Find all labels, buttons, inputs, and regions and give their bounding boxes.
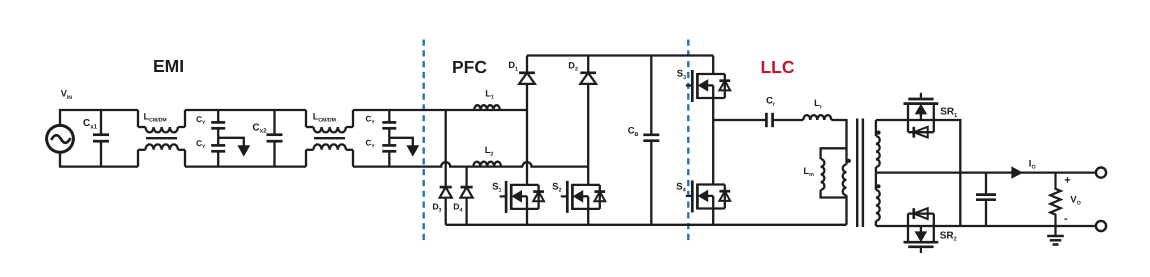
svg-text:LCM/DM: LCM/DM [313,112,336,124]
svg-text:Lm: Lm [803,165,814,178]
svg-text:LLC: LLC [760,57,794,77]
bottom output rail [934,225,1096,227]
svg-text:D1: D1 [508,60,518,72]
wire ac bottom [60,152,138,166]
dashed boundary EMI/PFC [423,40,425,243]
top rail PFC [527,54,713,56]
mosfet S4 [686,195,693,197]
output terminal positive [1096,168,1106,178]
wire D3 branch from top line [445,110,447,187]
wire secondary top to SR1 [876,119,908,121]
wire half-bridge midpoint [712,98,714,184]
ac source VIN [47,125,74,152]
bottom rail PFC [446,224,714,226]
resistor Vo load [1050,173,1060,226]
transformer primary winding [843,165,847,196]
mosfet SR1 [920,93,922,99]
svg-text:LCM/DM: LCM/DM [144,111,167,123]
inductor L1 [474,105,500,110]
svg-text:SR2: SR2 [940,230,957,242]
inductor LCM/DM 1 (common-mode choke) [137,110,139,127]
output terminal negative [1096,221,1106,231]
current arrow IO [1012,167,1022,178]
svg-text:VO: VO [1070,195,1081,207]
svg-text:SR1: SR1 [940,107,957,119]
wire secondary bottom to SR2 [876,225,908,227]
wire D4 branch from bottom line [465,167,467,188]
svg-text:D2: D2 [568,60,578,72]
wire SR1 to common node [934,120,961,226]
svg-text:S4: S4 [676,181,685,193]
svg-text:S3: S3 [677,69,686,81]
center-tap output rail [876,171,1096,173]
inductor LCM/DM 2 (common-mode choke) [305,110,307,127]
svg-text:IO: IO [1029,159,1036,171]
capacitor CY pair 1 with chassis arrow [217,110,219,122]
svg-text:PFC: PFC [452,57,487,77]
svg-text:-: - [1064,213,1068,225]
capacitor Cx1 [100,110,102,135]
wire S3 drain to top rail [712,56,714,74]
dashed boundary PFC/LLC [687,40,689,243]
inductor Lr [803,115,831,120]
svg-text:D4: D4 [453,201,462,213]
inductor L2 [473,162,501,167]
capacitor Cr [765,113,768,127]
wire bottom emi to PFC with crossover hops [353,162,523,166]
svg-text:CY: CY [366,115,376,126]
svg-text:S1: S1 [492,181,501,193]
transformer secondary top winding [875,120,877,136]
diode D2 with leg wire [587,56,589,73]
wire bottom emi 1 [185,165,306,167]
svg-text:L1: L1 [485,88,494,100]
capacitor CY pair 2 with chassis arrow [388,110,390,122]
polarity dot secondary bottom [876,184,880,188]
bottom rail LLC to primary [713,224,846,226]
svg-text:S2: S2 [552,181,561,193]
wire S4 source to rail [712,209,714,225]
svg-text:Cx1: Cx1 [83,118,98,130]
mosfet S2 [561,195,568,197]
wire midpoint to Cr [713,119,766,121]
mosfet SR2 [920,247,922,253]
output capacitor [985,173,987,195]
svg-text:VIN: VIN [61,89,73,101]
ground symbol [1054,226,1056,236]
svg-text:L2: L2 [485,145,494,157]
inductor Lm branch [821,148,847,159]
svg-text:+: + [1064,175,1070,187]
svg-text:CB: CB [628,125,639,138]
mosfet S3 [686,84,693,86]
svg-text:CY: CY [196,115,206,126]
diode D3 [440,186,452,189]
wire S2 source to rail [587,210,589,225]
mosfet S1 [500,195,507,197]
svg-text:EMI: EMI [153,56,184,76]
polarity dot primary [847,159,851,163]
svg-text:Cx2: Cx2 [252,122,267,134]
svg-text:Lr: Lr [814,97,823,110]
diode D1 with leg wire [526,56,528,73]
svg-text:Cr: Cr [766,95,776,108]
wire ac top [60,110,138,125]
wire S1 source to rail [526,210,528,225]
diode D4 [461,186,473,189]
svg-text:CY: CY [366,139,376,150]
polarity dot secondary top [876,131,880,135]
wire through SR2 [908,225,934,227]
wire top emi 1 [185,109,306,111]
capacitor CB [650,56,652,135]
wire Lr to primary [831,120,846,165]
svg-text:D3: D3 [432,201,441,213]
transformer secondary bottom winding [875,173,877,190]
transformer core [856,119,858,228]
wire through SR1 [908,119,934,121]
capacitor Cx2 [273,110,275,135]
svg-text:CY: CY [196,139,206,150]
wire top emi 2 [353,109,527,111]
wire Cr to Lr [773,119,804,121]
